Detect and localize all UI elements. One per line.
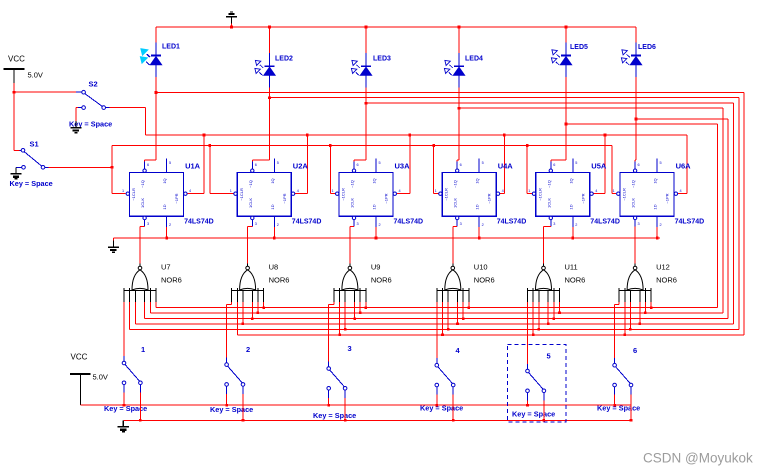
- junction bus / U11 input5: [553, 317, 556, 320]
- LED LED5: [560, 43, 571, 77]
- wire CLK U5A to NOR output U11: [544, 226, 551, 228]
- junction bus / U9 input6: [365, 306, 368, 309]
- wire feedback net LED3 right-edge vertical: [733, 103, 735, 324]
- junction S1 / clear column: [111, 166, 114, 169]
- wire ~1Q U1A to LED1 column: [144, 160, 146, 162]
- wire NOR U10 input5 drop: [462, 302, 464, 319]
- svg-text:LED4: LED4: [465, 56, 483, 63]
- wire NOR U12 input1 to switch 6: [618, 302, 620, 305]
- wire NOR U9 input2 drop: [339, 302, 341, 335]
- wire 1D pin U5A to ground rail: [572, 227, 574, 238]
- wire S1 output to clear net: [49, 166, 113, 168]
- svg-text:LED5: LED5: [570, 44, 588, 51]
- svg-text:LED1: LED1: [162, 44, 180, 51]
- junction VCC rail switch 3: [327, 404, 330, 407]
- junction bus / U9 input4: [353, 317, 356, 320]
- junction preset bus riser U2A: [306, 134, 309, 137]
- wire clear bus horizontal: [112, 145, 612, 147]
- ground GND-bottom: [118, 420, 129, 431]
- wire clear drop to U2A: [209, 146, 211, 194]
- wire NOR U11 input1 to switch 5: [527, 302, 529, 364]
- switch S2: [76, 90, 110, 109]
- junction VCC rail switch 4: [436, 404, 439, 407]
- wire interconnect bus line 5: [130, 328, 739, 330]
- svg-text:VCC: VCC: [8, 55, 25, 64]
- wire NOR U12 input6 drop: [650, 302, 652, 308]
- NOR gate U11 NOR6: [527, 264, 560, 303]
- junction ground rail switch 5: [543, 419, 546, 422]
- svg-text:U3A: U3A: [395, 162, 411, 171]
- junction LED3 column / feedback: [365, 102, 368, 105]
- junction ground rail switch 3: [344, 419, 347, 422]
- wire 1D pin U6A to ground rail: [656, 227, 658, 238]
- svg-text:3: 3: [348, 344, 352, 353]
- wire NOR U10 input3 drop: [447, 302, 449, 329]
- svg-text:U1A: U1A: [185, 162, 201, 171]
- svg-text:U2A: U2A: [293, 162, 309, 171]
- wire feedback net LED6 right-edge vertical: [727, 119, 729, 319]
- ground GND-top: [226, 12, 237, 23]
- flip-flop U1A 74LS74D: [122, 159, 191, 228]
- junction LED1 column / feedback: [155, 91, 158, 94]
- svg-text:U8: U8: [269, 263, 279, 272]
- wire feedback net LED1 horizontal: [156, 92, 744, 94]
- LED LED1: [150, 43, 161, 77]
- switch J6 key: [613, 358, 633, 394]
- junction bus / U9 input2: [338, 334, 341, 337]
- junction top rail / LED2 column: [268, 26, 271, 29]
- junction bus / U9 input5: [359, 312, 362, 315]
- wire preset riser U3A: [409, 135, 411, 194]
- junction LED4 column / feedback: [458, 107, 461, 110]
- wire switch 4 throw B to ground rail: [452, 395, 454, 421]
- junction LED2 column / feedback: [268, 96, 271, 99]
- wire cathode column LED2: [269, 87, 271, 160]
- wire cathode column LED6: [635, 77, 637, 160]
- wire NOR U9 input4 drop: [354, 302, 356, 319]
- junction bus / U10 input5: [462, 317, 465, 320]
- junction VCC rail switch 6: [613, 404, 616, 407]
- wire bottom ground rail: [123, 419, 631, 421]
- wire CLK U4A to NOR output U10: [453, 226, 457, 228]
- NOR gate U9 NOR6: [333, 264, 366, 303]
- wire cathode column LED5: [565, 77, 567, 160]
- junction D rail U1A: [165, 237, 168, 240]
- flip-flop U2A 74LS74D: [230, 159, 299, 228]
- svg-text:1: 1: [141, 345, 145, 354]
- svg-text:LED2: LED2: [275, 56, 293, 63]
- svg-text:U12: U12: [656, 263, 670, 272]
- wire preset riser U4A: [503, 135, 505, 194]
- wire ~1Q U5A to LED5 column: [550, 160, 552, 162]
- wire switch 5 throw B to ground rail: [543, 400, 545, 420]
- junction D rail U2A: [273, 237, 276, 240]
- svg-text:74LS74D: 74LS74D: [675, 219, 705, 226]
- wire switch 6 throw B to ground rail: [630, 395, 632, 421]
- wire NOR U8 input3 drop: [242, 302, 244, 324]
- wire NOR U8 input4 drop: [251, 302, 253, 319]
- wire ~1Q U2A to LED2 column: [251, 160, 253, 162]
- wire feedback net LED5 horizontal: [566, 123, 718, 125]
- flip-flop U6A 74LS74D: [613, 159, 682, 228]
- wire clear to ~CLR pin U6A: [612, 193, 616, 195]
- svg-text:LED3: LED3: [373, 56, 391, 63]
- junction LED6 column / feedback: [635, 118, 638, 121]
- LED LED6: [630, 43, 641, 77]
- wire NOR U8 input5 drop: [257, 302, 259, 313]
- wire NOR U9 input1 to switch 3: [333, 302, 335, 305]
- junction ground rail switch 4: [452, 419, 455, 422]
- junction bus / U12 input6: [650, 306, 653, 309]
- wire feedback net LED5 right-edge vertical: [717, 124, 719, 308]
- wire D ground rail: [113, 237, 660, 239]
- junction bus / U12 input2: [624, 334, 627, 337]
- wire NOR U10 input6 drop: [468, 302, 470, 308]
- wire CLK U6A to NOR output U12: [634, 226, 636, 228]
- flip-flop U4A 74LS74D: [435, 159, 504, 228]
- svg-text:6: 6: [633, 346, 637, 355]
- junction top rail / LED5 column: [565, 26, 568, 29]
- svg-text:2: 2: [246, 345, 250, 354]
- wire NOR U11 input6 drop: [559, 302, 561, 313]
- power VCC supply V2: [70, 374, 91, 405]
- LED LED4: [453, 53, 464, 87]
- junction clear bus drop U5A: [526, 144, 529, 147]
- svg-text:S2: S2: [89, 80, 98, 89]
- wire NOR U7 input5 drop: [149, 302, 151, 313]
- flip-flop U5A 74LS74D: [528, 159, 597, 228]
- svg-text:Key = Space: Key = Space: [313, 411, 356, 420]
- wire ~PR pin U2A to riser: [295, 193, 307, 195]
- wire CLK U1A to NOR output U7: [140, 226, 145, 228]
- wire top power rail: [156, 26, 636, 28]
- wire clear column left vertical: [111, 146, 113, 194]
- junction ground rail switch 2: [242, 419, 245, 422]
- wire NOR U8 input1 to switch 2: [231, 302, 233, 305]
- wire switch 4 throw A to VCC rail: [436, 395, 438, 406]
- wire NOR U12 input2 drop: [624, 302, 626, 335]
- wire NOR U12 input4 drop: [639, 302, 641, 324]
- wire CLK U2A to NOR output U8: [248, 226, 253, 228]
- wire switch 3 throw A to VCC rail: [328, 398, 330, 405]
- svg-text:74LS74D: 74LS74D: [292, 219, 322, 226]
- wire ~1Q U3A to LED3 column: [353, 160, 355, 162]
- ground GND-mid: [112, 238, 114, 241]
- wire NOR U9 input6 drop: [365, 302, 367, 308]
- wire clear to ~CLR pin U1A: [112, 193, 126, 195]
- wire clear drop to U6A: [611, 146, 613, 194]
- wire CLK U3A to NOR output U9: [350, 226, 354, 228]
- junction clear bus drop U4A: [432, 144, 435, 147]
- svg-text:74LS74D: 74LS74D: [394, 219, 424, 226]
- svg-text:74LS74D: 74LS74D: [497, 219, 527, 226]
- junction VCC rail switch 2: [225, 404, 228, 407]
- wire interconnect bus line 1: [156, 307, 718, 309]
- wire S1 unused throw to ground: [16, 166, 22, 168]
- junction bus / U11 input2: [532, 334, 535, 337]
- junction bus / U10 input2: [441, 334, 444, 337]
- wire clear to ~CLR pin U4A: [434, 193, 439, 195]
- wire feedback net LED1 right-edge vertical: [743, 93, 745, 335]
- ground GND-S1: [10, 167, 21, 178]
- wire clear to ~CLR pin U5A: [527, 193, 532, 195]
- wire feedback net LED4 horizontal: [459, 107, 723, 109]
- selection box around switch 5: [508, 345, 567, 422]
- svg-text:74LS74D: 74LS74D: [184, 219, 214, 226]
- svg-text:5: 5: [547, 352, 551, 361]
- wire ~PR pin U3A to riser: [397, 193, 410, 195]
- junction D rail U4A: [478, 237, 481, 240]
- wire feedback net LED2 horizontal: [270, 97, 739, 99]
- junction clear bus drop U2A: [209, 144, 212, 147]
- wire anode column LED3: [365, 27, 367, 53]
- wire ~PR pin U5A to riser: [594, 193, 605, 195]
- wire switch 2 throw B to ground rail: [242, 394, 244, 420]
- junction D rail U3A: [375, 237, 378, 240]
- wire ~PR pin U6A to riser: [678, 193, 687, 195]
- junction VCC rail switch 1: [123, 404, 126, 407]
- wire feedback net LED2 right-edge vertical: [738, 98, 740, 330]
- wire switch 5 throw A to VCC rail: [527, 400, 529, 405]
- wire 1D pin U4A to ground rail: [478, 227, 480, 238]
- junction bus / U12 input4: [639, 323, 642, 326]
- wire anode column LED6: [635, 27, 637, 43]
- wire 1D pin U2A to ground rail: [273, 227, 275, 238]
- wire NOR U7 input3 drop: [134, 302, 136, 324]
- junction preset bus riser U3A: [409, 134, 412, 137]
- svg-text:U9: U9: [371, 263, 381, 272]
- wire NOR U7 input1 to switch 1: [123, 302, 125, 356]
- junction LED5 column / feedback: [565, 123, 568, 126]
- wire NOR U11 input2 drop: [532, 302, 534, 335]
- wire NOR U11 input3 drop: [538, 302, 540, 329]
- svg-text:CSDN @Moyukok: CSDN @Moyukok: [643, 451, 753, 466]
- wire S2 unused throw to ground: [76, 107, 78, 109]
- svg-text:LED6: LED6: [638, 44, 656, 51]
- junction bus / U12 input3: [629, 328, 632, 331]
- wire clear drop to U5A: [526, 146, 528, 194]
- svg-text:Key = Space: Key = Space: [512, 410, 555, 419]
- wire cathode column LED3: [365, 87, 367, 160]
- svg-text:NOR6: NOR6: [474, 276, 495, 285]
- switch J3 key: [327, 362, 347, 398]
- wire 1D pin U3A to ground rail: [375, 227, 377, 238]
- switch J1 key: [122, 356, 142, 392]
- svg-text:VCC: VCC: [71, 353, 88, 362]
- wire preset riser U2A: [306, 135, 308, 194]
- wire VCC column: [13, 83, 15, 150]
- wire cathode column LED1: [155, 77, 157, 160]
- junction bus / U9 input3: [344, 328, 347, 331]
- power VCC supply V1: [4, 69, 25, 83]
- LED LED3: [360, 53, 371, 87]
- junction bus / U11 input3: [538, 328, 541, 331]
- svg-text:NOR6: NOR6: [269, 276, 290, 285]
- wire NOR U9 input3 drop: [344, 302, 346, 329]
- wire NOR U7 input4 drop: [144, 302, 146, 319]
- wire NOR U8 input2 drop: [236, 302, 238, 335]
- LED LED2: [264, 53, 275, 87]
- wire switch 2 throw A to VCC rail: [226, 394, 228, 405]
- NOR gate U8 NOR6: [231, 264, 264, 303]
- wire preset riser U6A: [686, 135, 688, 194]
- junction top rail / ground: [230, 26, 233, 29]
- svg-text:U7: U7: [161, 263, 171, 272]
- wire switch 3 throw B to ground rail: [344, 398, 346, 420]
- svg-text:4: 4: [456, 346, 461, 355]
- wire NOR U9 input5 drop: [359, 302, 361, 313]
- wire ~PR pin U1A to riser: [188, 193, 205, 195]
- svg-text:74LS74D: 74LS74D: [590, 219, 620, 226]
- junction top rail / LED4 column: [458, 26, 461, 29]
- wire bottom VCC rail: [80, 404, 631, 406]
- svg-text:NOR6: NOR6: [371, 276, 392, 285]
- wire NOR U12 input3 drop: [629, 302, 631, 329]
- wire preset riser U5A: [604, 135, 606, 194]
- svg-text:5.0V: 5.0V: [93, 373, 108, 382]
- switch J2 key: [225, 358, 245, 394]
- junction preset bus riser U4A: [503, 134, 506, 137]
- svg-text:S1: S1: [30, 140, 39, 149]
- junction D rail U6A: [656, 237, 659, 240]
- junction bus / U10 input6: [468, 306, 471, 309]
- junction bus / U8 input5: [257, 312, 260, 315]
- svg-text:U5A: U5A: [591, 162, 607, 171]
- junction clear bus drop U3A: [329, 144, 332, 147]
- switch S1: [14, 149, 49, 170]
- wire clear to ~CLR pin U3A: [330, 193, 335, 195]
- wire anode column LED4: [458, 27, 460, 53]
- svg-text:U6A: U6A: [676, 162, 692, 171]
- wire clear drop to U4A: [433, 146, 435, 194]
- svg-text:U10: U10: [474, 263, 488, 272]
- wire ~1Q U6A to LED6 column: [634, 160, 636, 162]
- NOR gate U10 NOR6: [436, 264, 469, 303]
- wire clear drop to U3A: [329, 146, 331, 194]
- wire switch 1 throw A to VCC rail: [123, 392, 125, 405]
- wire preset riser U1A: [203, 135, 205, 194]
- ground GND-S2: [70, 121, 81, 132]
- wire clear to ~CLR pin U2A: [210, 193, 234, 195]
- junction bus / U11 input6: [558, 312, 561, 315]
- junction bus / U8 input3: [242, 323, 245, 326]
- wire ~1Q U4A to LED4 column: [456, 160, 458, 162]
- svg-text:NOR6: NOR6: [565, 276, 586, 285]
- flip-flop U3A 74LS74D: [331, 159, 400, 228]
- junction ground rail switch 1: [139, 419, 142, 422]
- wire NOR U8 input6 drop: [263, 302, 265, 308]
- wire cathode column LED4: [458, 87, 460, 160]
- wire feedback net LED3 horizontal: [366, 102, 734, 104]
- junction bus / U8 input6: [262, 306, 265, 309]
- junction top rail / LED3 column: [365, 26, 368, 29]
- wire feedback net LED6 horizontal: [636, 118, 728, 120]
- wire anode column LED5: [565, 27, 567, 43]
- wire feedback net LED4 right-edge vertical: [722, 108, 724, 313]
- NOR gate U12 NOR6: [619, 264, 652, 303]
- wire interconnect bus line 4: [135, 323, 733, 325]
- svg-text:Key = Space: Key = Space: [10, 179, 53, 188]
- junction bus / U8 input4: [251, 317, 254, 320]
- wire switch 1 throw B to ground rail: [139, 392, 141, 420]
- junction VCC column / S2 branch: [13, 91, 16, 94]
- svg-text:U4A: U4A: [498, 162, 514, 171]
- wire interconnect bus line 2: [150, 312, 723, 314]
- wire anode column LED1: [155, 27, 157, 43]
- switch J5 key: [526, 364, 546, 400]
- wire NOR U7 input6 drop: [155, 302, 157, 308]
- wire interconnect bus line 6: [237, 334, 744, 336]
- wire NOR U10 input4 drop: [457, 302, 459, 324]
- junction preset bus riser U1A: [203, 134, 206, 137]
- wire preset bus horizontal: [146, 134, 688, 136]
- svg-text:Key = Space: Key = Space: [210, 405, 253, 414]
- junction bus / U10 input4: [456, 323, 459, 326]
- svg-text:U11: U11: [565, 263, 578, 272]
- switch J4 key: [435, 358, 455, 394]
- NOR gate U7 NOR6: [124, 264, 157, 303]
- junction bus / U10 input3: [447, 328, 450, 331]
- wire ~PR pin U4A to riser: [500, 193, 504, 195]
- wire NOR U11 input4 drop: [547, 302, 549, 324]
- wire anode column LED2: [269, 27, 271, 53]
- junction D rail U5A: [572, 237, 575, 240]
- wire NOR U10 input2 drop: [442, 302, 444, 335]
- wire VCC to S2: [14, 91, 76, 93]
- wire S2 output to preset bus: [110, 107, 146, 109]
- svg-text:NOR6: NOR6: [656, 276, 677, 285]
- wire NOR U10 input1 to switch 4: [436, 302, 438, 358]
- junction preset bus riser U5A: [604, 134, 607, 137]
- wire NOR U12 input5 drop: [644, 302, 646, 313]
- svg-text:5.0V: 5.0V: [28, 71, 43, 80]
- wire NOR U11 input5 drop: [553, 302, 555, 319]
- svg-text:NOR6: NOR6: [161, 276, 182, 285]
- wire NOR U7 input2 drop: [129, 302, 131, 329]
- junction bus / U12 input5: [644, 312, 647, 315]
- junction bus / U11 input4: [547, 323, 550, 326]
- wire interconnect bus line 3: [145, 318, 729, 320]
- wire 1D pin U1A to ground rail: [166, 227, 168, 238]
- junction ground rail switch 6: [630, 419, 633, 422]
- wire switch 6 throw A to VCC rail: [614, 395, 616, 406]
- junction VCC rail switch 5: [526, 404, 529, 407]
